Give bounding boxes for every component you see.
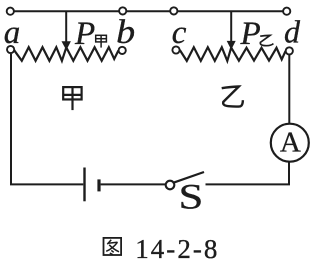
- wire: battery to switch: [101, 183, 166, 185]
- svg-text:S: S: [179, 177, 204, 217]
- rheostat 甲 resistive track (zigzag a to b): [14, 47, 118, 61]
- svg-text:c: c: [172, 15, 187, 51]
- terminal a circle: [7, 46, 14, 53]
- wire: top bus from left terminal to right terminal: [10, 10, 286, 12]
- terminal b circle: [119, 47, 126, 54]
- battery short plate (-): [97, 179, 100, 191]
- switch S lever: [174, 172, 204, 183]
- rheostat name label 乙: [222, 87, 243, 107]
- svg-text:P: P: [240, 16, 261, 52]
- rheostat 乙 resistive track (zigzag c to d): [180, 47, 286, 61]
- svg-text:P: P: [74, 16, 95, 52]
- slider label subscript 甲: [96, 35, 107, 47]
- svg-text:d: d: [284, 14, 301, 50]
- switch S pivot circle: [166, 181, 175, 190]
- wire: terminal d down to ammeter: [288, 54, 290, 124]
- slider label subscript 乙: [260, 35, 273, 45]
- svg-text:A: A: [280, 127, 301, 159]
- terminal circle: top bus right end: [283, 8, 290, 15]
- terminal circle: top bus tap above b: [119, 7, 126, 14]
- ammeter A1 body: [271, 124, 309, 162]
- terminal c circle: [172, 46, 179, 53]
- terminal circle: top bus left end: [7, 8, 14, 15]
- slider arrowhead P乙: [227, 41, 236, 50]
- terminal d circle: [286, 47, 293, 54]
- terminal circle: top bus tap above c: [170, 7, 177, 14]
- svg-text:a: a: [4, 15, 21, 51]
- svg-text:b: b: [116, 13, 135, 51]
- wire: slider stem P乙: [230, 11, 232, 41]
- caption 图 (drawn): [104, 238, 122, 255]
- wire: switch fixed contact to ammeter branch corner: [206, 161, 290, 184]
- wire: slider stem P甲: [65, 11, 67, 42]
- slider arrowhead P甲: [62, 41, 71, 50]
- battery long plate (+): [83, 168, 85, 202]
- wire: from terminal a down the left side and along the bottom to the battery: [11, 54, 83, 185]
- svg-text:14-2-8: 14-2-8: [135, 234, 219, 262]
- rheostat name label 甲: [63, 87, 81, 110]
